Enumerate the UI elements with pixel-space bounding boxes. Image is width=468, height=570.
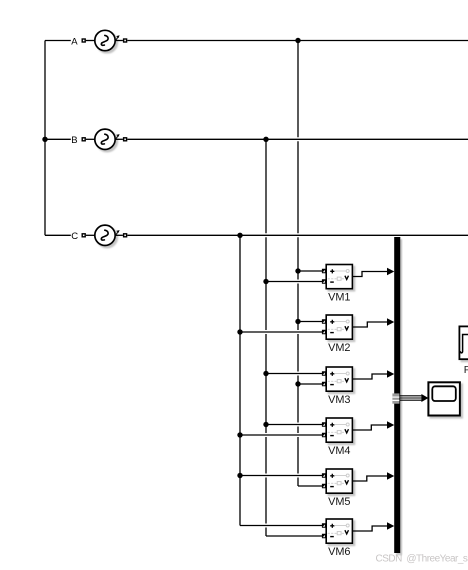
wire: VM2 - from C (238, 330, 322, 334)
bus bar (mux) (394, 237, 400, 553)
wire: VM3 + from B (264, 372, 322, 376)
junction net B / VM1- (263, 279, 268, 284)
svg-text:VM5: VM5 (328, 496, 350, 508)
wire: VM1 output to bus with arrow (353, 268, 395, 277)
wire: VM2 + from A (296, 320, 322, 324)
junction net C / VM4- (237, 432, 242, 437)
wire: VM4 + from B (264, 423, 322, 427)
wire: vertical net C drop (x=240) (239, 235, 241, 525)
wire: VM1 - from B (264, 280, 322, 284)
wire: left stub to source A (45, 40, 71, 42)
svg-text:VM6: VM6 (328, 546, 350, 558)
label VM1 (328, 292, 350, 304)
watermark CSDN @ThreeYear_s (376, 553, 468, 564)
wire: VM4 - from C (238, 433, 322, 437)
svg-text:C: C (71, 231, 78, 242)
wire: phase C row to right edge (127, 233, 468, 237)
wire: 3-line bus signal to scope (399, 394, 428, 402)
svg-text:A: A (71, 36, 78, 47)
junction net C top (237, 233, 242, 238)
wire: left stub to source B (45, 138, 71, 140)
label VM2 (328, 342, 350, 354)
junction net A top (295, 38, 300, 43)
svg-text:VM3: VM3 (328, 394, 350, 406)
bus output tab (392, 393, 399, 403)
wire: phase A row to right edge (127, 39, 468, 43)
wire: VM5 - from A (corner) (298, 484, 322, 488)
label of right-edge block (464, 364, 468, 376)
junction net B top (263, 137, 268, 142)
svg-text:VM4: VM4 (328, 445, 350, 457)
wire: VM6 output to bus with arrow (353, 522, 395, 531)
wire: VM1 + from A (296, 269, 322, 273)
AC voltage source VB (82, 129, 128, 149)
svg-text:B: B (71, 135, 77, 146)
wire: VM2 output to bus with arrow (353, 318, 395, 327)
wire: left stub to source C (45, 234, 71, 236)
wire: vertical net A drop (x=298) (297, 41, 299, 487)
wire: VM5 + from C (238, 474, 322, 478)
svg-text:CSDN @ThreeYear_s: CSDN @ThreeYear_s (376, 553, 468, 564)
AC voltage source VA (82, 30, 128, 50)
label VM3 (328, 394, 350, 406)
wire: left vertical bus joining sources (44, 41, 46, 236)
wire: VM5 output to bus with arrow (353, 472, 395, 481)
wire: VM6 - from B (corner) (266, 534, 322, 538)
svg-text:VM2: VM2 (328, 342, 350, 354)
wire: phase B row to right edge (127, 137, 468, 141)
node label B (source port label) (71, 135, 77, 146)
label VM5 (328, 496, 350, 508)
svg-text:VM1: VM1 (328, 292, 350, 304)
svg-text:P: P (464, 364, 468, 376)
AC voltage source VC (82, 225, 128, 245)
node label C (source port label) (71, 231, 78, 242)
voltage measurement VM6 (322, 519, 353, 543)
label VM4 (328, 445, 350, 457)
scope block (428, 382, 460, 415)
block at right edge (partially visible) (459, 326, 468, 359)
voltage measurement VM1 (322, 265, 353, 289)
voltage measurement VM3 (322, 367, 353, 391)
voltage measurement VM2 (322, 315, 353, 339)
wire: VM3 output to bus with arrow (353, 370, 395, 379)
junction net A / VM2+ (295, 319, 300, 324)
junction net C / VM5+ (237, 473, 242, 478)
wire: VM4 output to bus with arrow (353, 421, 395, 430)
voltage measurement VM4 (322, 418, 353, 442)
voltage measurement VM5 (322, 469, 353, 493)
wire: VM6 + from C (corner) (240, 524, 322, 528)
wire: VM3 - from A (296, 382, 322, 386)
junction net C / VM2- (237, 329, 242, 334)
wire: vertical net B drop (x=266) (265, 139, 267, 536)
label VM6 (328, 546, 350, 558)
junction net B / VM4+ (263, 422, 268, 427)
junction net A / VM3- (295, 381, 300, 386)
node label A (source port label) (71, 36, 78, 47)
junction net A / VM1+ (295, 268, 300, 273)
junction A-source bus at B row (42, 137, 47, 142)
junction net B / VM3+ (263, 371, 268, 376)
